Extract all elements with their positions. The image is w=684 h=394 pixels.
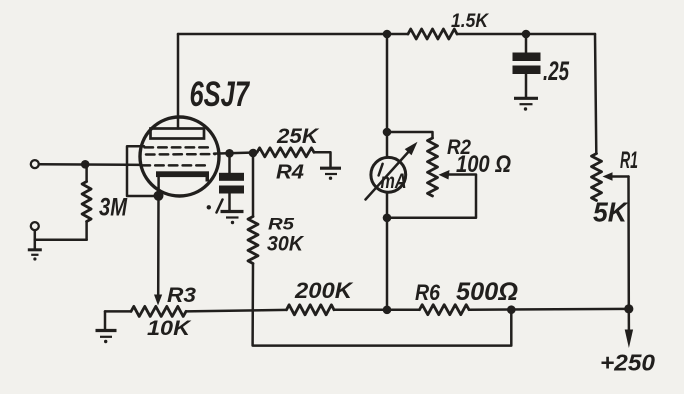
svg-text:.25: .25: [543, 56, 570, 86]
svg-text:25K: 25K: [276, 125, 320, 148]
svg-text:mA: mA: [381, 170, 407, 193]
resistor R6 (500 ohm): [420, 305, 470, 315]
svg-text:R5: R5: [268, 215, 295, 234]
wire: suppressor-to-cathode bracket: [127, 146, 155, 196]
svg-text:R1: R1: [620, 147, 638, 174]
tube control grid (bottom dashed row): [142, 164, 210, 167]
node: meter / R2 top junction: [383, 128, 392, 137]
node: meter / R2 bottom junction: [383, 214, 392, 223]
input terminal (top): [31, 160, 39, 168]
wire: input to control grid: [39, 163, 141, 166]
wire: meter branch lower segment: [386, 192, 389, 310]
resistor 1.5K (plate load): [408, 29, 457, 39]
node: screen / R5 junction: [249, 149, 258, 158]
tube 6SJ7 envelope: [140, 117, 219, 196]
node: input / 3M junction: [81, 160, 90, 169]
ground for R4: [320, 168, 341, 180]
svg-text:R4: R4: [276, 162, 304, 184]
wiper of R1: [603, 172, 629, 180]
wire: R4 to ground: [314, 152, 331, 167]
tube plate (anode): [151, 129, 205, 139]
wire: R1 wiper down to +250 node: [627, 177, 630, 309]
svg-text:500Ω: 500Ω: [456, 278, 518, 306]
resistor R3 (10K cathode potentiometer): [105, 306, 186, 316]
capacitor C1 .25 (plate bypass): [513, 34, 541, 97]
node: +250 supply junction: [624, 304, 633, 313]
svg-text:30K: 30K: [267, 233, 305, 256]
wire: 3M bottom to lower input terminal: [35, 230, 87, 240]
ground for R3: [96, 311, 117, 343]
svg-text:R6: R6: [415, 280, 441, 305]
label .1: [207, 200, 223, 213]
wire: top B+ rail left segment: [178, 33, 408, 36]
svg-text:3M: 3M: [99, 194, 128, 222]
wire: plate lead from 6SJ7 up to B+ top rail: [177, 34, 180, 129]
node: screen / bypass capacitor junction: [225, 149, 234, 158]
tube screen grid (middle dashed row): [146, 153, 215, 156]
svg-text:6SJ7: 6SJ7: [190, 75, 251, 114]
node: meter branch / bottom rail junction: [383, 306, 392, 315]
tube suppressor grid (top dashed row): [145, 146, 210, 149]
wire: R6 to +250 node: [469, 308, 629, 311]
ground for bypass capacitor: [221, 212, 244, 225]
meter M1 (1 mA): [366, 142, 418, 200]
input terminal (bottom): [31, 222, 39, 230]
resistor R5 (30K): [248, 153, 258, 264]
wire: top B+ rail right segment: [457, 33, 595, 36]
svg-text:10K: 10K: [147, 316, 192, 340]
wire: R2 top branch: [387, 132, 433, 138]
resistor 200K: [287, 305, 335, 315]
resistor 3M (grid leak): [82, 164, 91, 240]
wire: cathode rail R3 to 200K: [186, 310, 287, 312]
tube cathode: [156, 171, 209, 196]
wire: meter branch upper segment: [386, 34, 389, 158]
svg-text:200K: 200K: [294, 278, 354, 303]
node: cathode junction: [154, 191, 164, 201]
svg-text:1.5K: 1.5K: [451, 11, 489, 32]
resistor R2 (100 ohm rheostat): [428, 138, 438, 196]
svg-text:5K: 5K: [593, 197, 629, 228]
node: top rail / .25 capacitor junction: [522, 30, 531, 39]
resistor R4 (25K screen dropping): [257, 148, 314, 157]
ground at input: [28, 240, 42, 261]
wire: screen grid to R4: [214, 152, 257, 153]
svg-text:+250: +250: [600, 350, 655, 376]
wire: cathode lead down to R3 wiper: [157, 196, 160, 296]
node: R6 right / lower rail junction: [507, 305, 516, 314]
ground for .25 capacitor: [514, 98, 538, 110]
node: top rail / meter branch junction: [383, 30, 392, 39]
wire: right B+ wire down to R1: [595, 34, 596, 154]
wire: 200K to R6: [334, 308, 420, 311]
resistor R1 (5K rheostat): [592, 154, 602, 201]
wiper arrow of R3 (cathode tap): [154, 295, 162, 306]
wiper of R2 with return to meter line: [387, 170, 476, 218]
capacitor (screen bypass): [219, 153, 244, 210]
wire: R5 bottom via lower rail to R6 right junction: [253, 264, 512, 346]
arrow: +250 supply lead: [625, 309, 633, 348]
svg-text:R3: R3: [167, 283, 196, 307]
